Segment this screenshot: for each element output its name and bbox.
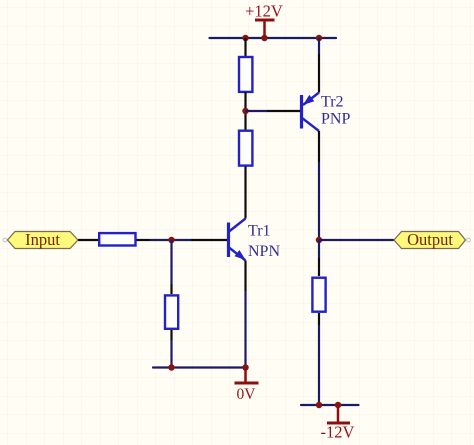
svg-text:Tr2: Tr2 xyxy=(321,94,344,111)
resistor R3 xyxy=(99,233,135,245)
svg-text:-12V: -12V xyxy=(321,423,355,442)
wire output xyxy=(319,239,394,241)
wire output node to R5 xyxy=(318,240,320,276)
wire R3 to node xyxy=(137,239,172,241)
wire Input to R3 xyxy=(78,239,98,241)
wire R5 to -12V rail xyxy=(318,313,320,405)
node bottom R4 xyxy=(168,364,175,371)
wire node to R4 xyxy=(170,240,172,294)
wire R1-R2 xyxy=(244,92,246,130)
svg-text:Tr1: Tr1 xyxy=(248,223,271,240)
wire R4 to bottom xyxy=(170,330,172,368)
wire Tr1 emitter down xyxy=(244,291,246,368)
resistor R4 xyxy=(165,295,178,328)
resistor R1 xyxy=(239,57,252,92)
node output xyxy=(316,237,323,244)
wire R2 to Tr1 collector xyxy=(244,167,246,219)
wire -12V rail xyxy=(301,404,359,406)
power label -12V xyxy=(321,405,355,442)
svg-text:NPN: NPN xyxy=(248,243,280,260)
wire to Tr2 base xyxy=(246,110,301,112)
flag Input xyxy=(3,230,78,249)
node 0V xyxy=(242,364,249,371)
svg-text:Input: Input xyxy=(25,230,60,249)
svg-text:+12V: +12V xyxy=(245,1,283,20)
node input xyxy=(168,237,175,244)
transistor Tr1 xyxy=(229,219,246,292)
wire bottom left xyxy=(153,366,246,368)
resistor R5 xyxy=(312,278,325,312)
node rail-R1 xyxy=(242,35,249,42)
svg-text:0V: 0V xyxy=(237,386,257,403)
node -12V right xyxy=(335,402,342,409)
resistor R2 xyxy=(239,131,252,166)
node rail-Tr2 xyxy=(316,35,323,42)
wire top rail xyxy=(210,37,337,39)
transistor Tr2 xyxy=(302,38,320,240)
node -12V left xyxy=(316,402,323,409)
svg-text:Output: Output xyxy=(407,230,453,249)
node rail-power xyxy=(261,35,268,42)
wire R1 top lead xyxy=(244,38,246,57)
svg-text:PNP: PNP xyxy=(321,111,350,128)
ground 0V xyxy=(235,368,259,404)
wire Tr1 base pin xyxy=(172,239,228,241)
power label +12V xyxy=(245,1,283,38)
node R1-R2-base xyxy=(242,108,249,115)
flag Output xyxy=(394,230,470,249)
